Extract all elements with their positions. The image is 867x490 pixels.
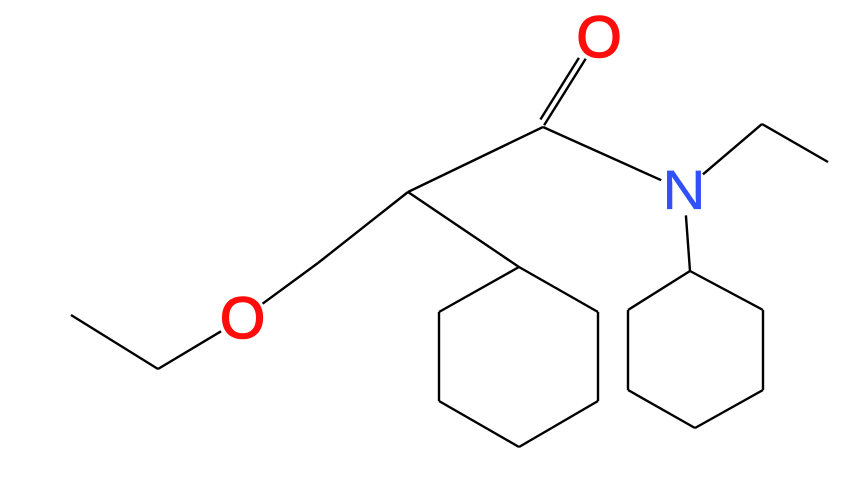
svg-text:O: O	[220, 286, 265, 351]
bond C8-C9 (right cyclohexane ring)	[627, 310, 629, 390]
bond C5-C6 (right cyclohexane ring)	[762, 310, 764, 390]
bond C15-C16 (central cyclohexane ring)	[438, 312, 440, 401]
bond C14-C15 (central cyclohexane ring)	[439, 401, 519, 447]
bond C18-C19 (ethoxy CH3)	[71, 315, 158, 369]
bond C2-C3 (ethyl CH3)	[762, 124, 828, 162]
bond C16-C11 (central cyclohexane ring)	[439, 267, 519, 312]
bond C1-C10 (alpha carbon chain)	[408, 127, 543, 192]
bond C11-C12 (central cyclohexane ring)	[519, 267, 598, 312]
svg-text:N: N	[662, 159, 706, 221]
bond C7-C8 (right cyclohexane ring)	[628, 390, 695, 428]
bond C10-C17 (CH2 to ether)	[318, 192, 408, 263]
bond C1-N1 (amide C-N)	[543, 127, 661, 180]
bond C10-C11 (to central cyclohexane)	[408, 192, 519, 267]
bond C4-C5 (right cyclohexane ring)	[690, 271, 763, 310]
bond O2-C18 (ethoxy CH2)	[158, 331, 221, 369]
bond C9-C4 (right cyclohexane ring)	[628, 271, 690, 310]
bond C13-C14 (central cyclohexane ring)	[519, 401, 598, 447]
bond C6-C7 (right cyclohexane ring)	[695, 390, 763, 428]
bond N1-C2 (N-ethyl CH2)	[703, 124, 762, 174]
bond N1-C4 (N-cyclohexyl)	[686, 215, 690, 271]
bond C12-C13 (central cyclohexane ring)	[597, 312, 599, 401]
svg-text:O: O	[576, 5, 621, 70]
bond O2-C17 (ether C-O)	[263, 263, 318, 304]
double bond C1=O1 (carbonyl)	[540, 58, 585, 125]
